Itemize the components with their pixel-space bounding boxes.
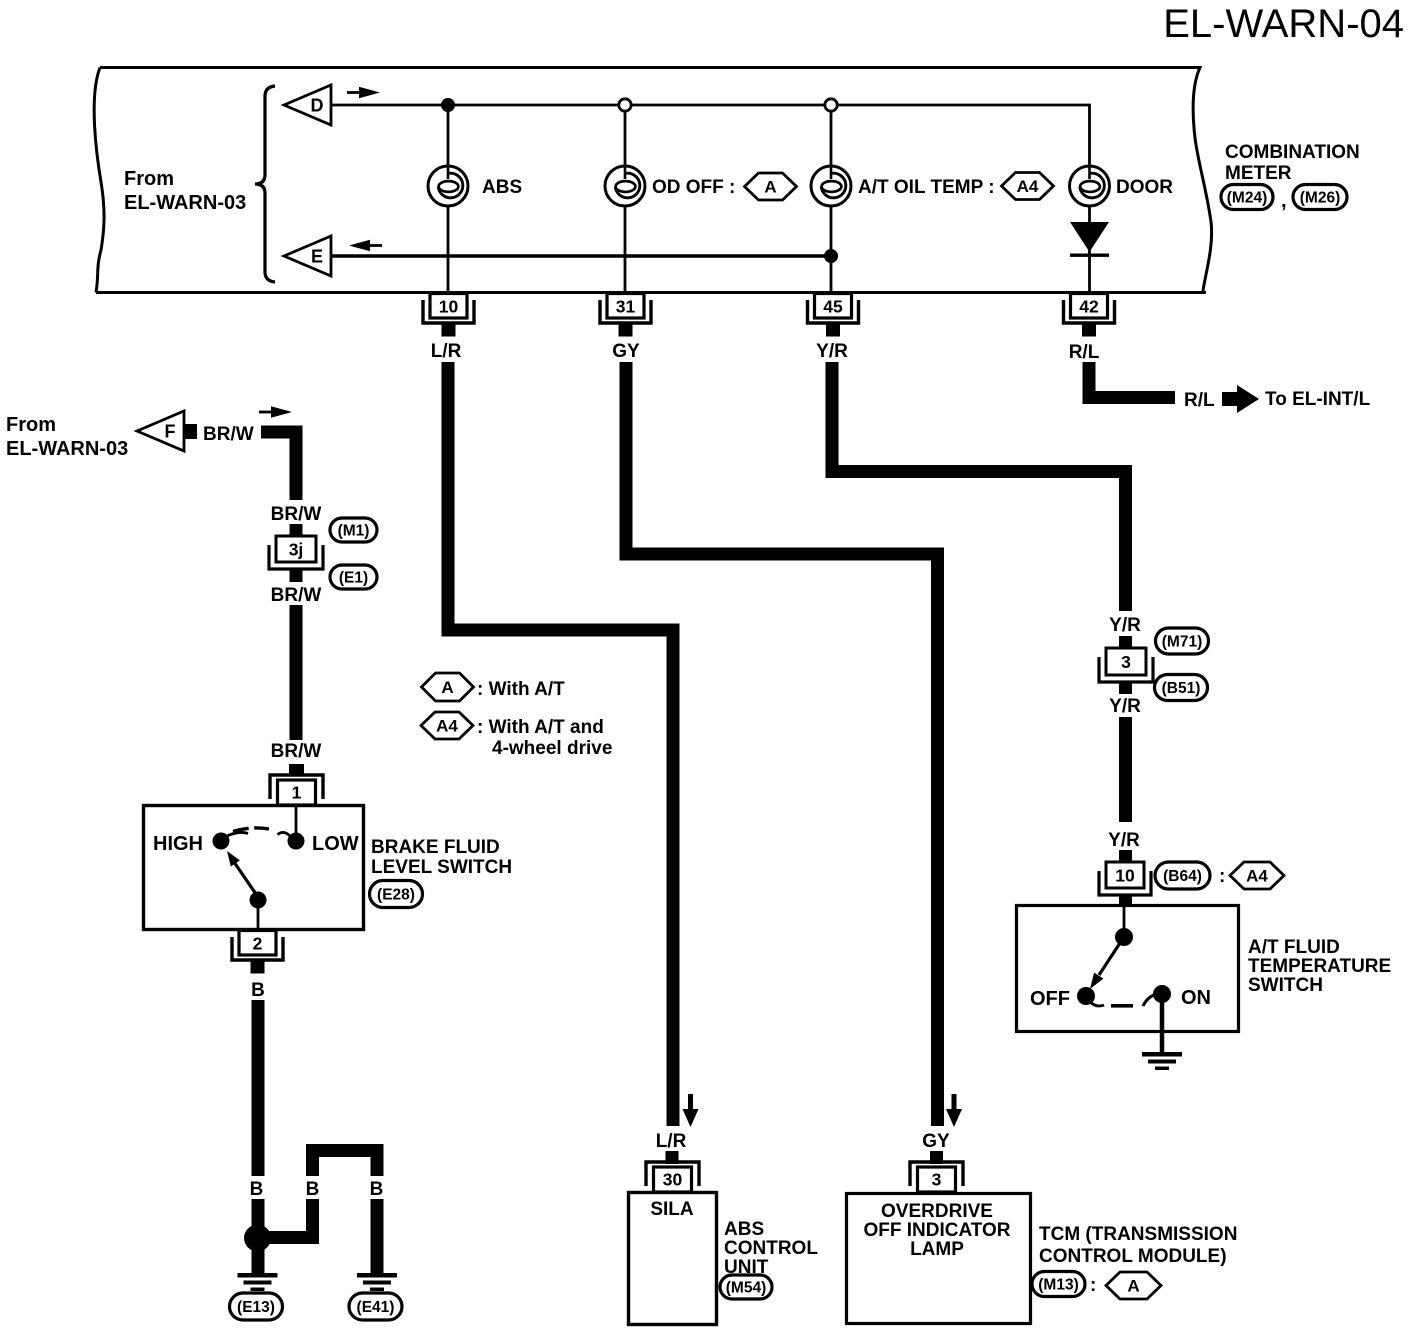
svg-text:(M71): (M71)	[1162, 633, 1202, 650]
svg-text:(M54): (M54)	[726, 1279, 766, 1296]
legend hexagon A	[422, 673, 474, 701]
svg-text:L/R: L/R	[656, 1131, 687, 1152]
lamp A/T OIL TEMP	[811, 166, 851, 206]
svg-text:Y/R: Y/R	[1108, 830, 1140, 851]
arrow to EL-INT/L	[1222, 385, 1259, 413]
hook at LOW contact	[278, 832, 291, 836]
svg-text:(M1): (M1)	[338, 522, 370, 539]
contact dot OFF	[1077, 987, 1095, 1005]
svg-text:HIGH: HIGH	[153, 833, 203, 855]
pin 42 (combination meter)	[1064, 294, 1115, 337]
svg-text:BRAKE FLUID: BRAKE FLUID	[371, 837, 500, 858]
svg-text:CONTROL: CONTROL	[724, 1238, 818, 1259]
tick at OFF contact	[1090, 1002, 1104, 1006]
svg-text:A: A	[764, 178, 776, 197]
A/T fluid temperature switch box	[1017, 906, 1239, 1032]
dashed arc between HIGH and LOW	[233, 828, 269, 832]
wire D horizontal bus	[331, 105, 1090, 167]
svg-text:A/T OIL TEMP :: A/T OIL TEMP :	[858, 177, 995, 198]
oval connector M26	[1293, 185, 1347, 210]
switch common dot	[250, 892, 267, 909]
svg-text:Y/R: Y/R	[1109, 615, 1141, 636]
pin 3 (TCM)	[910, 1162, 963, 1192]
ABS control unit box SILA	[629, 1193, 717, 1325]
svg-text:A4: A4	[1246, 867, 1268, 886]
connector-in triangle E	[284, 236, 331, 276]
svg-text:,: ,	[1281, 190, 1287, 212]
wire ON contact to ground	[1160, 994, 1165, 1054]
combination meter box outline M24/M26	[94, 68, 1211, 293]
wire pin10 into switch	[1123, 906, 1126, 930]
wire OD OFF lamp vertical	[624, 111, 627, 292]
oval connector M71	[1156, 628, 1209, 654]
svg-text:From: From	[6, 414, 56, 436]
svg-text:OD OFF :: OD OFF :	[652, 177, 735, 198]
svg-text:Y/R: Y/R	[816, 341, 848, 362]
svg-text:F: F	[165, 422, 176, 442]
wire B splice to middle riser	[264, 1199, 313, 1238]
svg-text:TCM (TRANSMISSION: TCM (TRANSMISSION	[1039, 1224, 1237, 1245]
wire DOOR lamp vertical	[1088, 167, 1091, 292]
wire B into ground E41	[371, 1199, 384, 1274]
wire B into ground E13	[252, 1199, 265, 1274]
brace	[255, 86, 275, 282]
svg-text:B: B	[306, 1179, 320, 1200]
ground symbol (A/T switch)	[1142, 1052, 1182, 1070]
wire BR/W stub into 3j	[290, 524, 303, 537]
junction dot B splice	[244, 1225, 271, 1252]
svg-text:LAMP: LAMP	[910, 1239, 964, 1260]
svg-text:COMBINATION: COMBINATION	[1225, 142, 1360, 163]
svg-text:B: B	[250, 1179, 264, 1200]
svg-text:ON: ON	[1181, 987, 1211, 1009]
arrow right on wire D	[347, 87, 380, 99]
svg-text:: With A/T and: : With A/T and	[477, 717, 604, 738]
hexagon A4 (A/T OIL TEMP)	[1002, 173, 1054, 200]
pin 10 (A/T fluid temperature switch B64)	[1099, 862, 1151, 895]
oval connector E1	[330, 565, 377, 589]
tap circle wire D / A-T OIL TEMP	[825, 99, 837, 111]
svg-text:ABS: ABS	[482, 177, 522, 198]
junction dot wire D / ABS	[441, 98, 455, 112]
wire B jumper over to E41 drop	[313, 1151, 378, 1177]
svg-text:45: 45	[823, 297, 843, 317]
wire B upper segment	[252, 1000, 265, 1176]
svg-text:LOW: LOW	[312, 833, 359, 855]
svg-text:METER: METER	[1225, 163, 1292, 184]
wire ABS lamp vertical	[447, 105, 450, 292]
contact dot LOW	[288, 833, 305, 850]
svg-text:31: 31	[616, 297, 636, 317]
svg-text:B: B	[370, 1179, 384, 1200]
hexagon A (OD OFF)	[745, 173, 797, 200]
svg-text::: :	[1090, 1275, 1096, 1296]
svg-text:Y/R: Y/R	[1109, 696, 1141, 717]
svg-text:To EL-INT/L: To EL-INT/L	[1265, 389, 1371, 410]
pin 30 (ABS control unit)	[646, 1162, 699, 1192]
svg-text:E: E	[311, 247, 323, 267]
wire BR/W upper segment	[261, 432, 296, 500]
svg-text:(E41): (E41)	[357, 1299, 395, 1316]
switch arm with arrowhead (A/T switch)	[1090, 943, 1120, 989]
pin 31 (combination meter)	[600, 294, 651, 337]
pin 1 (brake fluid level switch)	[270, 764, 323, 805]
inline connector 3 M71/B51	[1099, 648, 1153, 682]
wire GY pin31 to TCM	[626, 362, 938, 1126]
arrow left on wire E	[349, 240, 382, 252]
svg-text:3: 3	[932, 1170, 942, 1190]
svg-text:42: 42	[1079, 297, 1099, 317]
oval connector B64	[1155, 862, 1210, 889]
wire L/R pin10 to ABS control unit	[448, 362, 673, 1126]
legend hexagon A4	[421, 712, 473, 739]
wire stub B64 into A/T switch box	[1119, 895, 1132, 907]
oval connector E28	[370, 881, 423, 908]
pin 2 (brake fluid level switch)	[232, 931, 283, 974]
svg-text:D: D	[311, 96, 324, 116]
lamp ABS	[428, 166, 468, 206]
svg-text:CONTROL MODULE): CONTROL MODULE)	[1039, 1246, 1227, 1267]
oval connector M24	[1221, 185, 1273, 210]
svg-text:3j: 3j	[289, 540, 304, 560]
arrow down into TCM wire	[946, 1094, 962, 1127]
oval ground E41	[349, 1293, 402, 1320]
svg-text:EL-WARN-04: EL-WARN-04	[1163, 2, 1404, 46]
arrow down into ABS control unit wire	[683, 1094, 699, 1127]
svg-text:BR/W: BR/W	[271, 741, 322, 762]
oval connector M54	[720, 1275, 772, 1299]
svg-text:10: 10	[439, 297, 459, 317]
svg-text:4-wheel drive: 4-wheel drive	[492, 738, 612, 759]
svg-text:BR/W: BR/W	[271, 585, 322, 606]
svg-text::: :	[1219, 866, 1225, 887]
svg-text:LEVEL SWITCH: LEVEL SWITCH	[371, 857, 512, 878]
wire A/T OIL TEMP lamp vertical	[830, 111, 833, 292]
svg-text:BR/W: BR/W	[271, 504, 322, 525]
svg-text:(M13): (M13)	[1038, 1276, 1078, 1293]
wire stub into pin 3	[930, 1151, 943, 1164]
wire E horizontal bus	[331, 254, 831, 258]
svg-text:(M26): (M26)	[1300, 189, 1340, 206]
svg-text:BR/W: BR/W	[203, 424, 254, 445]
svg-text:1: 1	[292, 783, 302, 803]
svg-text:(E1): (E1)	[339, 569, 368, 586]
wire R/L pin42 to EL-INT/L	[1089, 362, 1175, 398]
svg-text:L/R: L/R	[431, 341, 462, 362]
wire Y/R stub below connector 3	[1119, 682, 1132, 694]
svg-text:EL-WARN-03: EL-WARN-03	[124, 192, 246, 214]
wire stub into pin 30	[666, 1151, 679, 1164]
hexagon A4 (B64)	[1230, 862, 1284, 889]
svg-text:: With A/T: : With A/T	[477, 679, 565, 700]
wire Y/R pin45 upper segment	[832, 362, 1126, 611]
oval connector M1	[330, 518, 377, 542]
svg-text:From: From	[124, 168, 174, 190]
tick at HIGH contact	[227, 832, 248, 836]
svg-text:B: B	[251, 980, 265, 1001]
wire Y/R stub into B64 pin 10	[1119, 850, 1132, 863]
ground symbol E13	[238, 1273, 278, 1291]
svg-text:(E28): (E28)	[377, 886, 415, 903]
svg-text:R/L: R/L	[1184, 390, 1215, 411]
svg-text:(E13): (E13)	[237, 1299, 275, 1316]
contact dot ON	[1153, 985, 1171, 1003]
svg-text:EL-WARN-03: EL-WARN-03	[6, 438, 128, 460]
pin 45 (combination meter)	[808, 294, 859, 337]
hexagon A (TCM)	[1106, 1272, 1161, 1299]
svg-text:GY: GY	[922, 1131, 950, 1152]
svg-text:A/T FLUID: A/T FLUID	[1248, 937, 1340, 958]
svg-text:SWITCH: SWITCH	[1248, 975, 1323, 996]
svg-text:OVERDRIVE: OVERDRIVE	[881, 1201, 993, 1222]
wire pin1 to LOW contact	[295, 806, 298, 834]
wire common dot to pin 2	[257, 900, 260, 930]
joint connector 3j	[269, 536, 323, 569]
svg-text:ABS: ABS	[724, 1219, 764, 1240]
svg-text:(B64): (B64)	[1163, 868, 1202, 885]
connector-in triangle D	[284, 85, 331, 125]
svg-text:OFF: OFF	[1030, 988, 1070, 1010]
wire BR/W stub below 3j	[290, 569, 303, 582]
svg-text:3: 3	[1121, 652, 1131, 672]
oval ground E13	[230, 1293, 283, 1320]
arrow right on BR/W wire	[259, 406, 292, 418]
tab at triangle F	[184, 424, 197, 439]
svg-text:30: 30	[663, 1170, 683, 1190]
svg-text:OFF INDICATOR: OFF INDICATOR	[863, 1220, 1010, 1241]
junction dot wire E / A-T OIL TEMP	[824, 249, 838, 263]
svg-text:TEMPERATURE: TEMPERATURE	[1248, 956, 1391, 977]
oval connector B51	[1155, 675, 1208, 701]
wire BR/W lower segment	[290, 605, 303, 740]
connector-in triangle F	[137, 411, 184, 451]
svg-text:2: 2	[253, 934, 263, 954]
svg-text:A: A	[441, 678, 453, 697]
svg-text:A: A	[1127, 1277, 1139, 1296]
TCM overdrive off indicator lamp box	[847, 1194, 1031, 1324]
lamp OD OFF	[605, 166, 645, 206]
lamp DOOR	[1070, 166, 1110, 206]
brake fluid level switch box E28	[144, 806, 364, 930]
wire Y/R stub into connector 3	[1119, 636, 1132, 649]
svg-text:(B51): (B51)	[1162, 680, 1201, 697]
svg-text:A4: A4	[1017, 177, 1039, 196]
ground symbol E41	[357, 1273, 397, 1291]
contact dot HIGH	[213, 833, 230, 850]
wire Y/R lower segment	[1119, 717, 1132, 822]
contact dot common (A/T switch)	[1115, 928, 1133, 946]
svg-text:R/L: R/L	[1069, 342, 1100, 363]
oval connector M13	[1032, 1272, 1085, 1297]
svg-text:10: 10	[1115, 866, 1135, 886]
svg-text:A4: A4	[436, 717, 458, 736]
diode (DOOR lamp)	[1070, 222, 1109, 257]
pin 10 (combination meter)	[423, 294, 474, 337]
svg-text:(M24): (M24)	[1227, 189, 1267, 206]
svg-text:GY: GY	[612, 341, 640, 362]
tap circle wire D / OD OFF	[619, 99, 631, 111]
dash between OFF and ON	[1111, 1004, 1133, 1008]
hook at ON contact	[1143, 994, 1157, 1006]
switch arm with arrowhead	[227, 851, 258, 897]
svg-text:SILA: SILA	[650, 1199, 694, 1220]
svg-text:DOOR: DOOR	[1116, 177, 1173, 198]
